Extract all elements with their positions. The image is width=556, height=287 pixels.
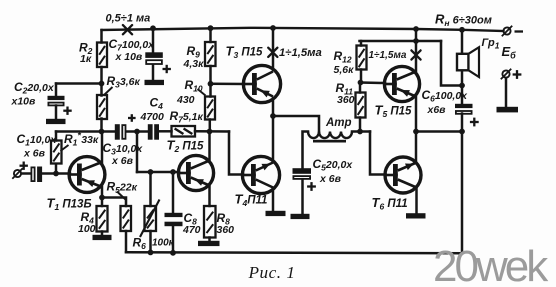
node R1-C1-base junction <box>53 171 59 177</box>
node R6 top junction <box>148 169 154 175</box>
plus sign Eb <box>513 73 522 75</box>
wire T3 emitter to T4 emitter <box>272 99 275 162</box>
wire R12 top lead <box>360 41 363 46</box>
wire T3 collector vertical <box>272 28 275 70</box>
wire coil left to C5 <box>303 132 309 169</box>
node C8 rail junction <box>170 250 176 256</box>
node T5 collector rail junction <box>413 26 419 32</box>
wire R6 bottom lead <box>149 231 152 252</box>
ground bar under T4 <box>266 211 286 216</box>
svg-text:5,6к: 5,6к <box>334 64 355 76</box>
break mark T5 collector <box>411 50 420 59</box>
wire T6 collector vertical <box>415 132 418 163</box>
capacitor C3 10uF plates <box>115 124 120 140</box>
svg-text:R10: R10 <box>185 78 203 94</box>
ground bar under R4 <box>93 235 112 240</box>
break mark T3 collector <box>268 48 277 57</box>
svg-text:Т6 П11: Т6 П11 <box>372 195 408 212</box>
svg-text:C220,0х: C220,0х <box>14 80 55 96</box>
wire T5 base <box>361 81 386 84</box>
node C7 rail junction <box>150 25 156 31</box>
input plus sign <box>20 165 28 167</box>
transistor T4 P11 <box>242 156 279 193</box>
wire T3 base <box>211 83 245 86</box>
plus sign C7 <box>163 68 171 70</box>
resistor R9 4.3k body <box>205 42 216 66</box>
node autotransformer feed junction <box>270 113 276 119</box>
svg-text:R12: R12 <box>334 49 352 65</box>
wire R3 bottom lead <box>100 119 103 132</box>
wire node A drop <box>136 132 139 173</box>
wire R1 top lead <box>55 132 58 141</box>
plus sign C6 <box>470 121 479 123</box>
svg-text:R75,1к: R75,1к <box>170 109 204 125</box>
wire R4 top lead <box>101 198 104 207</box>
capacitor C4 4700 plates <box>148 124 153 140</box>
wire T2 emitter to R8 <box>208 185 211 206</box>
capacitor C5 20uF plates <box>293 168 312 174</box>
resistor R4 100 body <box>97 206 108 232</box>
capacitor C1 10uF plates <box>31 167 34 181</box>
capacitor C6 100uF plates <box>455 104 473 108</box>
svg-text:х10в: х10в <box>11 96 37 108</box>
wire input to C1 <box>22 172 31 175</box>
resistor R11 360 body <box>356 93 366 118</box>
wire C7 top lead <box>152 28 155 52</box>
svg-text:х6в: х6в <box>427 104 447 116</box>
svg-text:Атр: Атр <box>325 117 352 129</box>
wire C5 bottom lead <box>301 179 304 214</box>
wire measuring tap row y=41 <box>360 40 442 43</box>
plus sign C5 <box>307 185 316 187</box>
wire C2 bottom lead <box>55 106 58 120</box>
capacitor C2 20uF plates <box>48 96 65 100</box>
wire C7 bottom lead <box>152 65 155 80</box>
ground bar under C2 <box>46 119 66 124</box>
capacitor C8 470 plates <box>165 213 183 217</box>
terminal minus Eb <box>503 27 510 34</box>
node speaker bottom junction <box>459 83 465 89</box>
svg-text:R522к: R522к <box>107 180 138 196</box>
wire speaker return <box>441 41 462 86</box>
terminal plus Eb <box>502 70 509 77</box>
input terminal <box>14 170 21 177</box>
wire R2 bottom to R3 <box>100 67 103 96</box>
wire R11 top lead <box>359 83 362 93</box>
wire battery plus lead <box>505 78 508 107</box>
resistor R2 1k body <box>97 43 107 68</box>
svg-text:C520,0х: C520,0х <box>313 157 354 173</box>
svg-text:1к: 1к <box>80 53 92 65</box>
node R7-R10-T2 junction <box>207 129 213 135</box>
wire R11 bottom lead <box>359 118 362 132</box>
wire top supply rail (minus) <box>102 28 504 31</box>
svg-text:C6100,0х: C6100,0х <box>422 88 469 104</box>
svg-text:4700: 4700 <box>140 111 165 123</box>
svg-text:R33,6к: R33,6к <box>107 74 141 90</box>
transistor T3 P15 <box>243 65 280 102</box>
svg-text:470: 470 <box>182 224 201 236</box>
ground bar under R8 <box>198 241 220 246</box>
resistor R2 top lead wire <box>100 30 103 43</box>
wire C4 to R7 <box>159 130 172 133</box>
wire R4 bottom lead <box>101 232 104 235</box>
wire bottom feedback rail <box>126 252 462 253</box>
wire T6 emitter drop <box>415 188 418 214</box>
wire T4 base path <box>229 132 243 175</box>
svg-text:430: 430 <box>176 94 195 106</box>
wire C8 bottom lead <box>172 227 175 253</box>
node tap crossing junction <box>413 38 419 44</box>
wire R6 top lead <box>149 172 152 206</box>
wire C3 to C4 link <box>127 130 149 133</box>
wire C8 top lead <box>172 172 175 213</box>
svg-text:100к: 100к <box>152 238 175 249</box>
svg-text:Еб: Еб <box>502 44 517 61</box>
wire bias row y=131 <box>56 130 115 133</box>
node speaker rail junction <box>459 27 465 33</box>
svg-text:Rн 6÷30ом: Rн 6÷30ом <box>435 12 492 29</box>
ground bar under C7 <box>145 80 165 85</box>
transistor T1 P13B <box>69 157 105 193</box>
svg-text:Гр1: Гр1 <box>482 37 500 51</box>
svg-text:R6: R6 <box>133 236 147 252</box>
node A C3-C4 junction <box>134 129 140 135</box>
node R2-R3-C2 junction <box>99 81 105 87</box>
node T5-T6 output junction <box>413 129 419 135</box>
resistor R5 22k body <box>121 206 132 231</box>
ground bar under C5 <box>291 214 310 219</box>
wire T5 collector vertical <box>415 29 418 72</box>
leader line R3 label <box>104 87 113 96</box>
svg-text:R1* 33к: R1* 33к <box>64 131 99 148</box>
wire speaker top lead <box>461 30 464 54</box>
svg-text:1÷1,5ма: 1÷1,5ма <box>369 50 407 61</box>
node T3 base junction <box>208 81 214 87</box>
svg-text:Т4П11: Т4П11 <box>235 192 268 209</box>
transistor T2 P15 <box>178 155 213 190</box>
svg-text:20wek: 20wek <box>433 242 549 287</box>
node C8 top junction <box>170 169 176 175</box>
svg-text:Т3 П15: Т3 П15 <box>226 44 264 61</box>
inductor Atr core bar <box>313 140 346 143</box>
wire C2 branch <box>56 82 102 85</box>
wire R9 top lead <box>209 28 212 42</box>
node R3-T1 collector junction <box>99 129 105 135</box>
svg-text:C4: C4 <box>150 96 164 112</box>
node R9 rail junction <box>208 25 214 31</box>
node R6 rail junction <box>148 250 154 256</box>
resistor R12 5.6k body <box>357 46 367 70</box>
wire R1 bottom lead <box>55 164 58 174</box>
leader line R5 label <box>117 192 126 200</box>
wire T5 emitter vertical <box>415 96 418 132</box>
wire T4 collector drop <box>272 189 275 211</box>
ground bar under T6 <box>406 213 426 218</box>
node T1 emitter junction <box>99 195 105 201</box>
resistor R6 100k variable body <box>145 206 157 231</box>
wire R8 bottom lead <box>208 238 211 241</box>
node C6 output junction <box>459 129 465 135</box>
inductor Atr autotransformer coil <box>308 132 352 139</box>
svg-text:4,3к: 4,3к <box>183 58 205 70</box>
svg-text:1÷1,5ма: 1÷1,5ма <box>279 47 322 59</box>
leader line R1 label <box>61 145 69 151</box>
svg-text:Т5 П15: Т5 П15 <box>375 103 413 120</box>
wire T1 collector vertical <box>101 132 104 163</box>
wire R12 bottom lead <box>360 70 363 83</box>
resistor R1 33k body <box>51 141 62 164</box>
speaker Gr1 frame <box>457 54 469 71</box>
resistor R8 360 body <box>204 206 216 238</box>
wire C6 bottom lead <box>461 114 464 132</box>
wire R7 to T2 collector node <box>195 130 229 133</box>
svg-text:0,5÷1 ма: 0,5÷1 ма <box>106 13 151 25</box>
svg-text:х 6в: х 6в <box>319 173 342 185</box>
wire R5 bottom lead <box>125 231 128 252</box>
svg-text:C110,0х: C110,0х <box>17 132 58 148</box>
resistor R10 430 body <box>205 97 215 120</box>
break mark 0.5-1mA <box>123 25 132 34</box>
wire R9-R10 link <box>209 66 212 97</box>
plus sign C2 <box>63 110 71 112</box>
wire R10 bottom lead <box>209 120 212 132</box>
wire C1 to T1 base <box>43 172 71 175</box>
transistor T5 P15 <box>384 66 419 101</box>
wire speaker bottom lead <box>461 70 464 85</box>
wire T6 base path <box>370 132 386 175</box>
svg-text:360: 360 <box>337 94 355 106</box>
resistor R3 3.6k body <box>97 95 107 119</box>
node T3 collector rail junction <box>270 25 276 31</box>
plus sign C3 <box>128 117 136 119</box>
wire feed to autotransformer tap <box>273 116 319 132</box>
capacitor C7 100uF plates <box>145 52 163 58</box>
wire right side drop <box>461 132 464 254</box>
svg-text:х 6в: х 6в <box>23 148 46 160</box>
svg-text:х 10в: х 10в <box>115 51 143 63</box>
wire emitter row to R5 <box>102 198 126 207</box>
wire C6 top lead <box>461 86 464 104</box>
wire feedback row y=172 <box>137 171 179 174</box>
wire T2 collector vertical <box>208 132 211 162</box>
minus sign Eb <box>515 30 524 32</box>
svg-text:Т2 П15: Т2 П15 <box>167 138 205 155</box>
svg-text:Рис. 1: Рис. 1 <box>248 263 296 282</box>
wire output link <box>416 130 462 133</box>
svg-text:360: 360 <box>217 224 235 236</box>
leader line R10 label <box>198 89 206 96</box>
node T5 base junction <box>358 80 364 86</box>
node R11-coil junction <box>357 129 363 135</box>
resistor R7 5.1k body <box>172 126 196 137</box>
wire T1 emitter drop <box>101 187 104 198</box>
speaker Gr1 horn <box>469 47 480 77</box>
wire C2 top lead <box>55 84 58 97</box>
ground bar battery plus <box>497 107 519 113</box>
svg-text:100: 100 <box>78 223 96 235</box>
wire coil right end <box>352 130 370 133</box>
transistor T6 P11 <box>385 157 421 193</box>
svg-text:х 6в: х 6в <box>111 155 134 167</box>
